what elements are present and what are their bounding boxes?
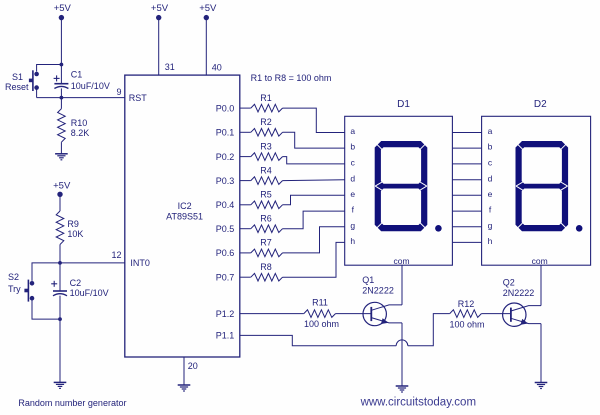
svg-text:f: f <box>489 205 492 215</box>
svg-text:Try: Try <box>8 284 21 294</box>
resistor R5 <box>251 201 283 209</box>
svg-text:D1: D1 <box>397 99 410 110</box>
wire R5 to display segment e <box>283 195 345 205</box>
svg-text:c: c <box>351 158 356 168</box>
svg-text:P0.2: P0.2 <box>216 152 235 162</box>
svg-text:RST: RST <box>129 93 148 103</box>
svg-text:8.2K: 8.2K <box>71 128 90 138</box>
wire +5V to pin 31 <box>158 18 160 76</box>
wire pin 20 to ground <box>183 357 185 385</box>
svg-text:e: e <box>350 189 355 199</box>
svg-text:h: h <box>488 236 493 246</box>
wire IC to resistor R5 <box>240 204 251 206</box>
svg-text:R2: R2 <box>260 117 272 127</box>
resistor R3 <box>251 153 283 161</box>
svg-text:com: com <box>393 256 409 266</box>
resistor R9 <box>56 211 64 245</box>
svg-text:+5V: +5V <box>199 3 217 14</box>
wire IC to resistor R2 <box>240 131 251 133</box>
resistor R4 <box>251 177 283 185</box>
capacitor C2 <box>59 263 61 291</box>
decimal point D2 <box>576 225 583 232</box>
ground below R10 <box>55 153 68 155</box>
svg-text:2N2222: 2N2222 <box>362 286 394 296</box>
wire D1 to D2 segment e <box>452 194 481 196</box>
seven segment digit D1 <box>375 141 428 231</box>
svg-text:R1 to R8 = 100 ohm: R1 to R8 = 100 ohm <box>251 73 332 83</box>
svg-text:R1: R1 <box>260 93 272 103</box>
wire IC to resistor R6 <box>240 228 251 230</box>
wire R8 to display segment h <box>283 242 345 277</box>
svg-text:h: h <box>350 236 355 246</box>
svg-text:g: g <box>488 220 493 230</box>
svg-text:R8: R8 <box>260 262 272 272</box>
svg-text:D2: D2 <box>534 99 547 110</box>
junction below C2 <box>58 317 62 321</box>
wire IC to resistor R7 <box>240 252 251 254</box>
svg-text:10uF/10V: 10uF/10V <box>71 81 110 91</box>
wire S2 bottom leg <box>32 298 60 319</box>
wire D1 to D2 segment a <box>452 132 481 134</box>
junction node top of S1/C1 <box>60 63 64 67</box>
resistor R8 <box>251 273 283 281</box>
svg-text:c: c <box>488 158 493 168</box>
svg-text:2N2222: 2N2222 <box>503 288 535 298</box>
decimal point D1 <box>435 225 442 232</box>
wire R12 to Q2 base <box>481 313 511 315</box>
wire IC to resistor R1 <box>240 107 251 109</box>
ground below Q2 <box>535 382 548 384</box>
svg-text:100 ohm: 100 ohm <box>304 319 339 329</box>
resistor R6 <box>251 225 283 233</box>
svg-text:Reset: Reset <box>5 82 29 92</box>
wire S1 bottom to RST net <box>36 88 38 98</box>
svg-text:Q2: Q2 <box>503 278 515 288</box>
svg-text:10K: 10K <box>67 229 83 239</box>
wire Q1 emitter to ground <box>401 323 403 386</box>
svg-text:f: f <box>352 205 355 215</box>
wire D1 to D2 segment d <box>452 179 481 181</box>
resistor R7 <box>251 249 283 257</box>
wire P1.2 to R11 <box>240 313 304 315</box>
svg-text:P1.1: P1.1 <box>216 331 235 341</box>
wire R2 to display segment b <box>283 132 345 148</box>
svg-text:R10: R10 <box>71 118 88 128</box>
wire IC to resistor R3 <box>240 156 251 158</box>
svg-text:S2: S2 <box>8 272 19 282</box>
svg-text:b: b <box>488 142 493 152</box>
svg-text:40: 40 <box>212 62 222 72</box>
svg-text:a: a <box>350 126 355 136</box>
wire node to switch S2 top <box>32 263 60 281</box>
resistor R2 <box>251 129 283 137</box>
wire Q1 collector to D1 com <box>401 265 403 305</box>
ground below pin 20 <box>178 384 191 386</box>
wire IC to resistor R8 <box>240 276 251 278</box>
wire R4 to display segment d <box>283 179 345 182</box>
svg-text:Random number generator: Random number generator <box>18 398 126 408</box>
svg-text:R3: R3 <box>260 141 272 151</box>
svg-text:9: 9 <box>116 87 121 97</box>
svg-text:10uF/10V: 10uF/10V <box>70 288 109 298</box>
svg-text:R9: R9 <box>67 219 79 229</box>
svg-text:AT89S51: AT89S51 <box>166 211 203 221</box>
wire Q2 emitter to ground <box>540 324 542 383</box>
wire R1 to display segment a <box>283 108 345 132</box>
svg-text:R5: R5 <box>260 190 272 200</box>
resistor R10 <box>60 98 62 109</box>
svg-text:P0.1: P0.1 <box>216 128 235 138</box>
svg-text:31: 31 <box>165 62 175 72</box>
switch S1 pushbutton <box>34 72 39 77</box>
svg-text:P0.3: P0.3 <box>216 176 235 186</box>
svg-text:+5V: +5V <box>53 180 71 191</box>
wire R6 to display segment f <box>283 211 345 229</box>
svg-text:P0.0: P0.0 <box>216 103 235 113</box>
svg-text:P0.5: P0.5 <box>216 224 235 234</box>
svg-text:P0.4: P0.4 <box>216 200 235 210</box>
svg-text:d: d <box>350 173 355 183</box>
wire R7 to display segment g <box>283 227 345 253</box>
wire INT0 net to IC pin 12 <box>60 262 125 264</box>
wire +5V1 to node RSTtop <box>60 18 62 65</box>
wire R11 to Q1 base <box>336 313 372 315</box>
wire IC to resistor R4 <box>240 180 251 182</box>
svg-text:C1: C1 <box>71 70 83 80</box>
svg-text:R11: R11 <box>312 298 328 308</box>
wire node to switch S1 top <box>37 65 62 72</box>
svg-text:R6: R6 <box>260 213 272 223</box>
seven segment digit D2 <box>516 141 569 231</box>
svg-text:P1.2: P1.2 <box>216 309 235 319</box>
wire Q2 collector to D2 com <box>540 265 542 305</box>
svg-text:b: b <box>350 142 355 152</box>
display D1 body <box>345 116 453 265</box>
switch S2 pushbutton <box>30 281 35 286</box>
svg-text:d: d <box>488 173 493 183</box>
wire RST net to IC pin 9 <box>37 97 125 99</box>
wire +5V to pin 40 <box>205 18 207 76</box>
svg-text:g: g <box>350 220 355 230</box>
wire P1.1 to R12 with hop <box>240 335 396 345</box>
transistor Q2 2N2222 <box>503 303 526 326</box>
svg-text:com: com <box>532 256 548 266</box>
wire junction to ground <box>59 319 61 382</box>
svg-text:e: e <box>488 189 493 199</box>
wire D1 to D2 segment c <box>452 163 481 165</box>
resistor R1 <box>251 104 283 112</box>
junction node RST <box>60 96 64 100</box>
capacitor C1 <box>60 65 62 84</box>
svg-text:P0.6: P0.6 <box>216 248 235 258</box>
resistor R11 <box>304 310 336 318</box>
junction node INT0 <box>58 261 62 265</box>
resistor R12 <box>450 310 482 318</box>
svg-text:www.circuitstoday.com: www.circuitstoday.com <box>360 397 476 409</box>
wire D1 to D2 segment b <box>452 147 481 149</box>
svg-text:INT0: INT0 <box>130 258 150 268</box>
svg-text:20: 20 <box>188 361 198 371</box>
wire D1 to D2 segment g <box>452 226 481 228</box>
svg-text:12: 12 <box>111 250 121 260</box>
svg-text:R12: R12 <box>458 299 475 309</box>
svg-text:IC2: IC2 <box>178 201 192 211</box>
ground below C2 <box>54 381 67 383</box>
svg-text:+5V: +5V <box>151 3 169 14</box>
svg-text:C2: C2 <box>70 278 82 288</box>
display D2 body <box>482 116 591 265</box>
svg-text:R4: R4 <box>260 165 272 175</box>
wire R3 to display segment c <box>283 157 345 164</box>
ground below Q1 <box>396 385 409 387</box>
svg-text:R7: R7 <box>260 238 272 248</box>
svg-text:S1: S1 <box>12 72 23 82</box>
svg-text:a: a <box>488 126 493 136</box>
transistor Q1 2N2222 <box>363 302 386 325</box>
svg-text:+5V: +5V <box>54 3 72 14</box>
wire D1 to D2 segment h <box>452 241 481 243</box>
svg-text:100 ohm: 100 ohm <box>449 320 484 330</box>
IC U-IC2 AT89S51 body <box>125 75 240 357</box>
svg-text:P0.7: P0.7 <box>216 272 235 282</box>
wire D1 to D2 segment f <box>452 210 481 212</box>
svg-text:Q1: Q1 <box>362 275 374 285</box>
wire +5V to R9 <box>59 194 61 211</box>
